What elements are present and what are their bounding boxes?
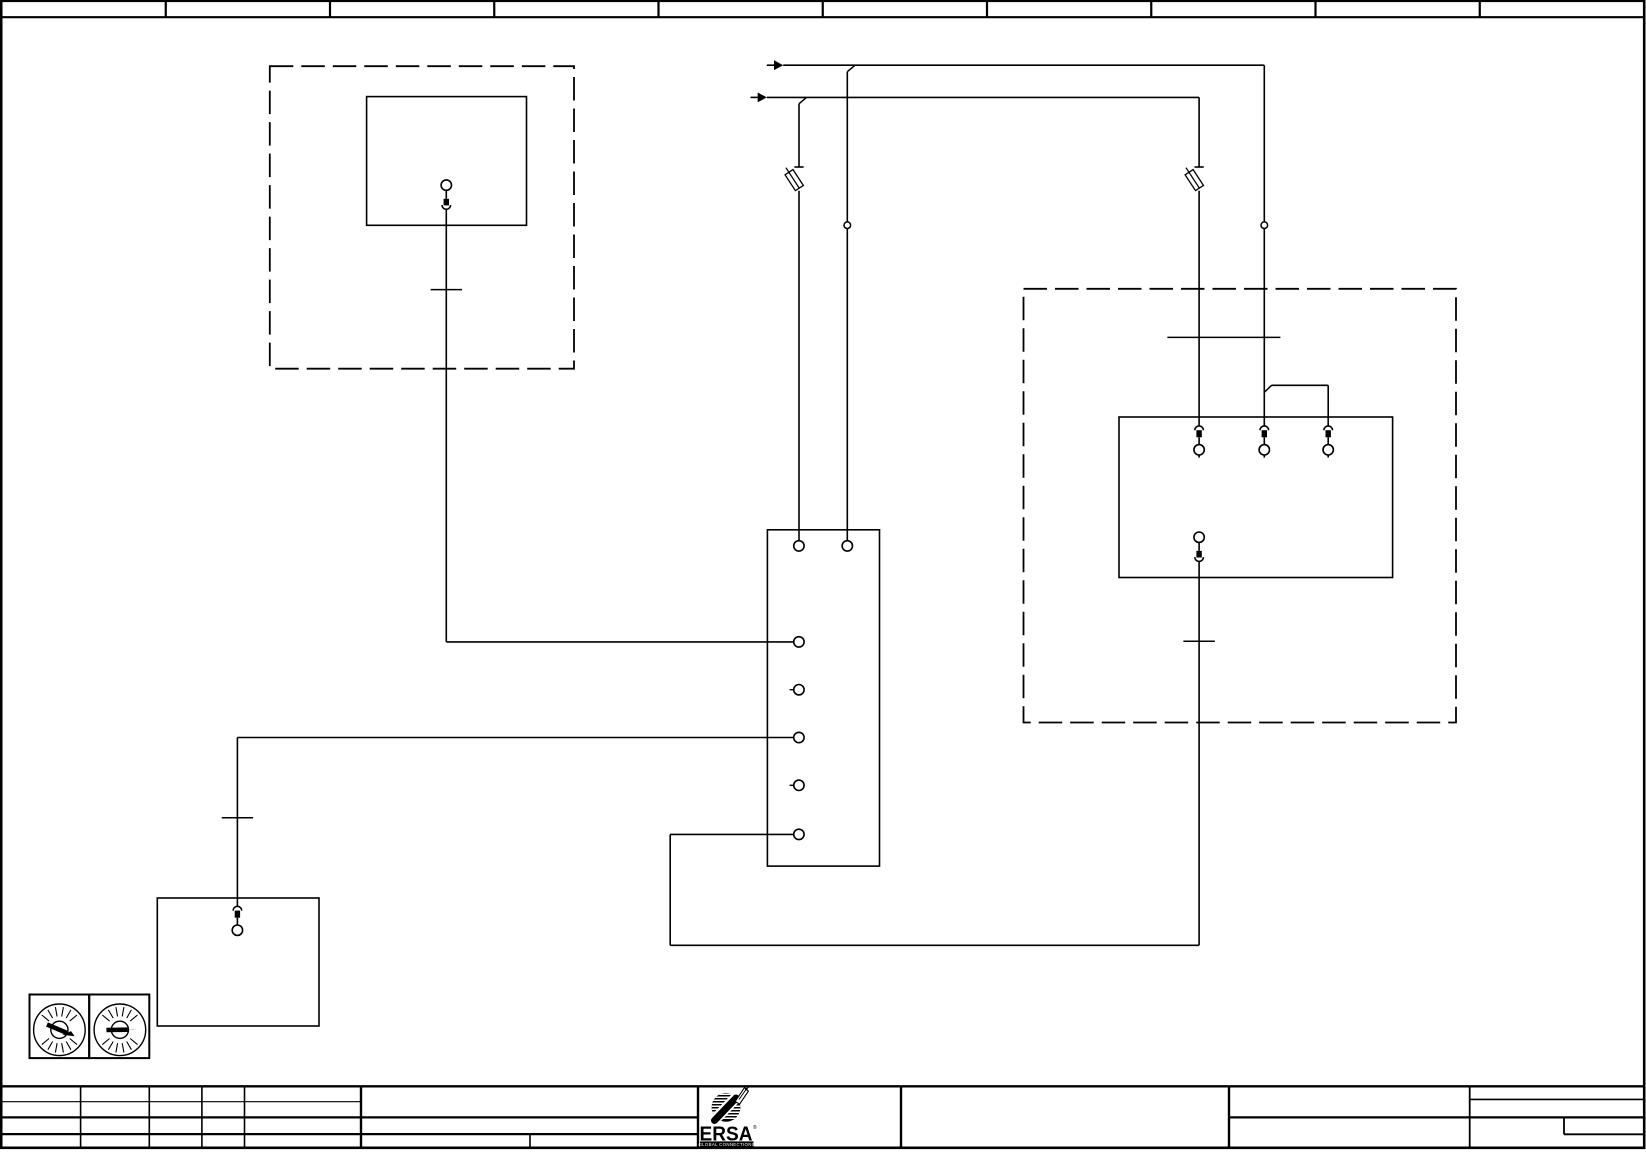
svg-text:GLOBAL CONNECTIONS: GLOBAL CONNECTIONS (698, 1142, 754, 1147)
svg-text:®: ® (753, 1124, 757, 1131)
